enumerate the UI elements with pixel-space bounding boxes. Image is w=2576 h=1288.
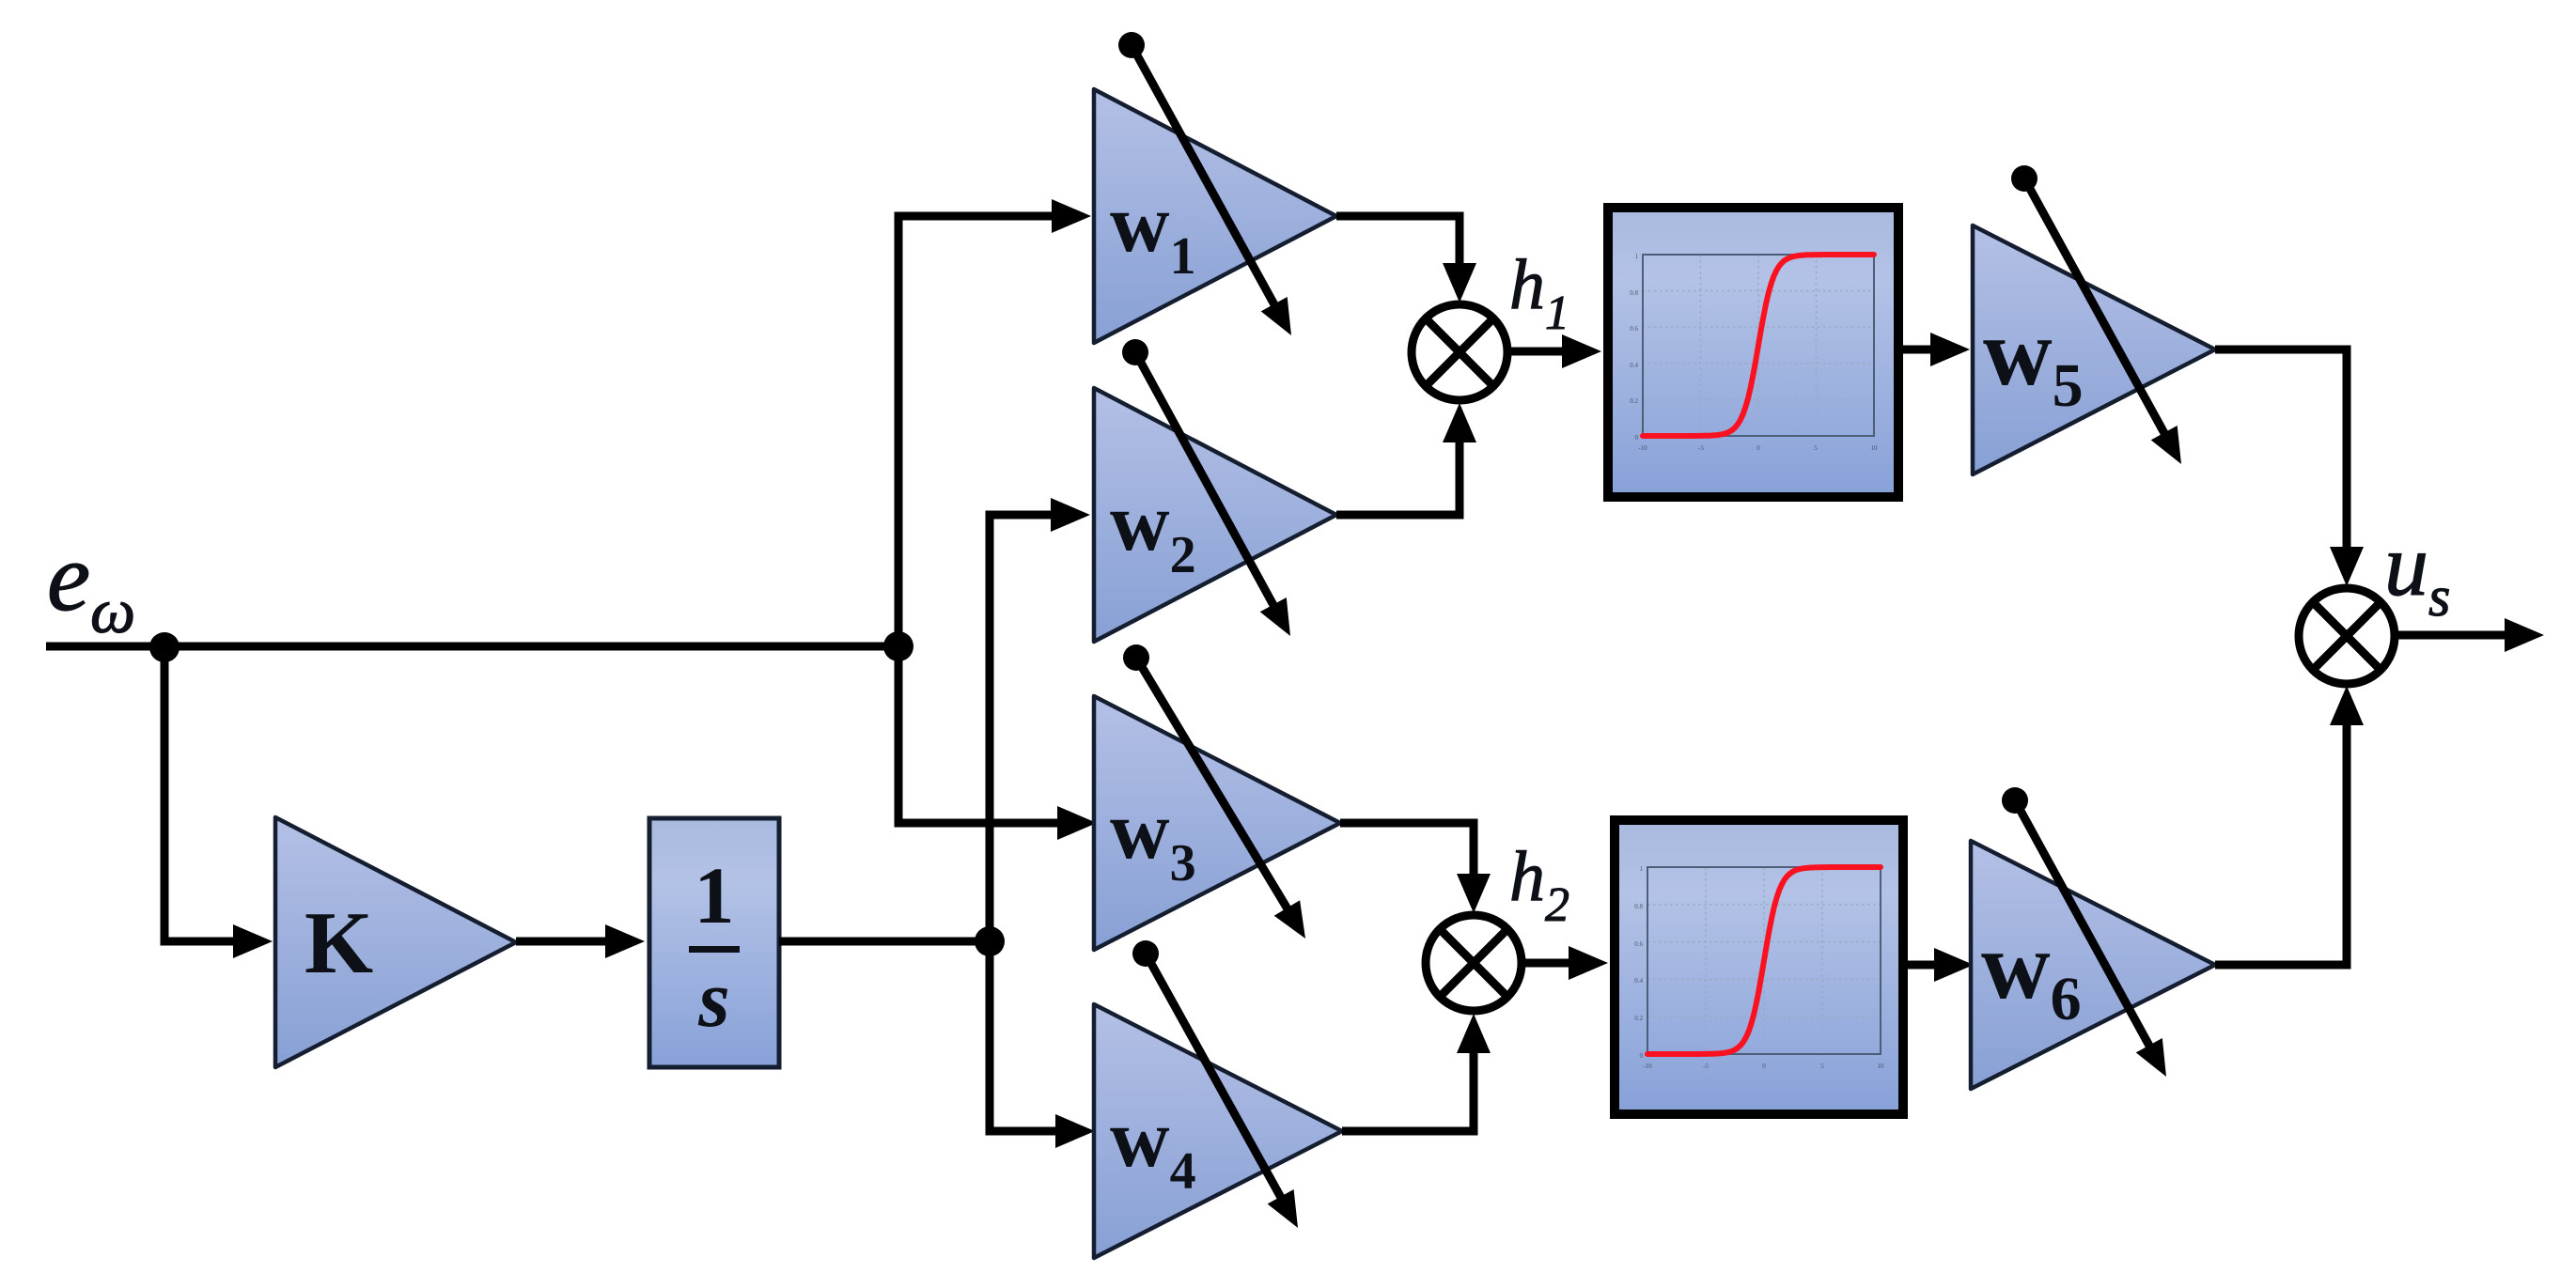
wire us output xyxy=(2398,618,2544,652)
node h2 label xyxy=(1509,837,1569,932)
sigmoid block 2 xyxy=(1615,820,1903,1114)
gain W4 xyxy=(1094,1004,1342,1258)
svg-text:1: 1 xyxy=(695,850,735,940)
wire h1 to sigmoid 1 xyxy=(1507,334,1601,368)
junction dot integrator output xyxy=(975,926,1005,956)
wire sigmoid 1 to W5 xyxy=(1903,333,1970,366)
svg-text:0: 0 xyxy=(1762,1063,1766,1070)
svg-text:5: 5 xyxy=(1820,1063,1824,1070)
svg-text:K: K xyxy=(304,894,373,992)
svg-text:eω: eω xyxy=(47,523,135,646)
svg-text:0.2: 0.2 xyxy=(1630,397,1638,405)
gain W5 xyxy=(1973,225,2215,474)
gain W3 xyxy=(1094,696,1340,950)
variable arrow W2 xyxy=(1122,339,1290,636)
svg-text:0: 0 xyxy=(1640,1052,1644,1060)
wire W2 output to multiplier h1 xyxy=(1336,403,1476,515)
node e_omega input label xyxy=(47,523,135,646)
wire main e_omega horizontal xyxy=(46,643,898,651)
node h1 label xyxy=(1509,245,1569,340)
node us label xyxy=(2384,517,2450,628)
variable arrow W3 xyxy=(1123,644,1305,939)
wire trunk down to W3 xyxy=(898,646,1097,840)
multiplier us xyxy=(2299,588,2395,684)
svg-text:-5: -5 xyxy=(1703,1063,1709,1070)
wire sigmoid 2 to W6 xyxy=(1908,948,1974,982)
multiplier h1 xyxy=(1412,304,1507,400)
svg-text:0.6: 0.6 xyxy=(1634,940,1643,948)
wire W5 output to multiplier us xyxy=(2215,349,2364,586)
wire W6 output to multiplier us xyxy=(2215,686,2364,965)
integrator 1/s xyxy=(649,818,779,1067)
variable arrow W6 xyxy=(2002,787,2166,1077)
svg-text:10: 10 xyxy=(1871,444,1879,452)
gain W1 xyxy=(1094,89,1336,343)
wire branch down to K xyxy=(164,646,273,958)
gain W6 xyxy=(1971,841,2215,1089)
svg-text:-10: -10 xyxy=(1643,1063,1652,1070)
gain W2 xyxy=(1094,388,1336,642)
multiplier h2 xyxy=(1426,915,1522,1011)
svg-text:h1: h1 xyxy=(1509,245,1569,340)
svg-text:us: us xyxy=(2384,517,2450,628)
svg-text:1: 1 xyxy=(1640,865,1644,873)
svg-text:-5: -5 xyxy=(1698,444,1704,452)
wire W4 output to multiplier h2 xyxy=(1342,1014,1491,1131)
svg-text:0.6: 0.6 xyxy=(1630,325,1638,333)
svg-text:h2: h2 xyxy=(1509,837,1569,932)
svg-text:0.4: 0.4 xyxy=(1630,362,1638,369)
wire W3 output to multiplier h2 xyxy=(1340,823,1491,913)
svg-text:10: 10 xyxy=(1878,1063,1885,1070)
junction dot at e_omega branch xyxy=(149,632,180,662)
wire h2 to sigmoid 2 xyxy=(1522,946,1608,980)
svg-text:0.8: 0.8 xyxy=(1630,289,1638,297)
gain K xyxy=(275,817,516,1067)
svg-text:-10: -10 xyxy=(1638,444,1647,452)
sigmoid block 1 xyxy=(1608,208,1898,497)
svg-text:0: 0 xyxy=(1756,444,1760,452)
svg-text:0.8: 0.8 xyxy=(1634,903,1643,910)
variable arrow W5 xyxy=(2011,165,2181,464)
svg-text:0.4: 0.4 xyxy=(1634,977,1643,985)
svg-text:s: s xyxy=(697,954,729,1044)
variable arrow W1 xyxy=(1118,32,1291,335)
svg-text:5: 5 xyxy=(1814,444,1818,452)
wire K output to integrator xyxy=(516,924,645,958)
svg-text:0.2: 0.2 xyxy=(1634,1015,1643,1022)
variable arrow W4 xyxy=(1132,940,1298,1228)
wire integrator output xyxy=(779,938,990,946)
wire trunk up to W2 xyxy=(990,498,1090,941)
junction dot on main wire xyxy=(883,631,913,661)
wire W1 output to multiplier h1 xyxy=(1336,216,1476,303)
wire trunk down to W4 xyxy=(990,941,1095,1148)
svg-text:1: 1 xyxy=(1635,253,1639,260)
wire trunk up to W1 xyxy=(898,199,1091,646)
svg-text:0: 0 xyxy=(1635,434,1639,442)
